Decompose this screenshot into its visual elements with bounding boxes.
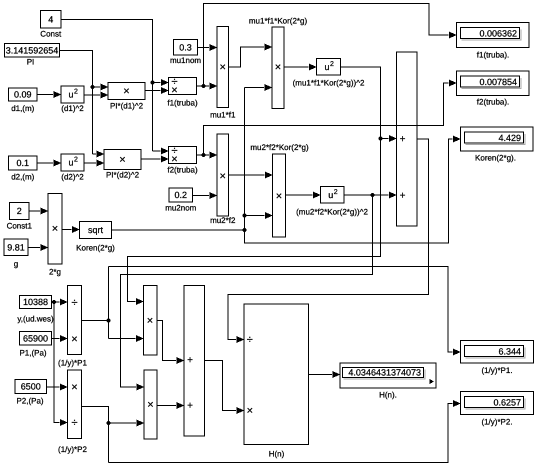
block constant mu1nom (0.3) — [174, 40, 198, 56]
label f2(truba) — [167, 166, 198, 175]
wire f1(truba) -> mu1*f1 and display f1(truba). — [197, 4, 457, 90]
block constant g (9.81) — [4, 239, 28, 256]
label PI*(d2)^2 — [106, 171, 140, 180]
svg-text:0.3: 0.3 — [179, 42, 192, 52]
block constant d1,(m) (0.09) — [9, 88, 38, 101]
svg-text:×: × — [71, 382, 77, 394]
product block f2(truba) divide — [169, 145, 197, 166]
svg-text:PI*(d1)^2: PI*(d1)^2 — [110, 102, 144, 111]
label (mu1*f1*Kor(2*g))^2 — [293, 79, 365, 88]
product block f1(truba) divide — [169, 76, 197, 97]
svg-text:f2(truba).: f2(truba). — [477, 98, 509, 107]
svg-text:3.141592654: 3.141592654 — [6, 45, 59, 55]
label f2(truba). — [477, 98, 509, 107]
wire d2 -> (d2)^2 — [37, 160, 61, 167]
wire f2(truba) -> mu2*f2 and display f2(truba). — [197, 80, 457, 159]
block constant P2,(Pa) (6500) — [15, 380, 47, 394]
label f1(truba) — [167, 99, 198, 108]
wire (d2)^2 -> PI*(d2)^2 — [84, 160, 104, 167]
svg-text:4.429: 4.429 — [498, 133, 521, 143]
label Const1 — [7, 222, 33, 231]
product block PI*(d1)^2 — [108, 83, 145, 100]
svg-text:f1(truba).: f1(truba). — [477, 51, 509, 60]
wire (mu2*f2*Kor(2*g))^2 -> sum upper and mid product 2 — [121, 192, 397, 391]
svg-text:Const: Const — [40, 30, 62, 39]
product block (1/y)*P2 (tall) — [68, 370, 82, 439]
svg-text:+: + — [187, 355, 193, 366]
svg-text:Const1: Const1 — [7, 222, 33, 231]
svg-text:2: 2 — [17, 206, 22, 216]
svg-text:÷: ÷ — [71, 297, 77, 309]
wire mu2*f2*Kor(2*g) -> u^2 — [286, 192, 321, 199]
label Koren(2*g). — [475, 154, 516, 163]
svg-text:mu2*f2*Kor(2*g): mu2*f2*Kor(2*g) — [250, 143, 309, 152]
svg-text:×: × — [275, 61, 281, 73]
math block (d1)^2 u^2 — [61, 86, 84, 103]
svg-text:(mu1*f1*Kor(2*g))^2: (mu1*f1*Kor(2*g))^2 — [293, 79, 365, 88]
label (1/y)*P2 — [58, 445, 87, 454]
wire (1/y)*P2 -> mid product 2, display (1/y)*P2. — [82, 400, 461, 463]
svg-text:f1(truba): f1(truba) — [167, 99, 198, 108]
wire y(10388) -> (1/y)*P1 and (1/y)*P2 — [52, 299, 68, 427]
wire sum upper -> H(n) divide input — [228, 139, 429, 343]
svg-text:+: + — [400, 134, 406, 145]
svg-text:2: 2 — [74, 157, 78, 164]
product block 2*g (tall) — [48, 194, 62, 265]
svg-text:u: u — [68, 158, 73, 168]
svg-text:mu1*f1*Kor(2*g): mu1*f1*Kor(2*g) — [249, 17, 308, 26]
label H(n). — [379, 391, 397, 400]
math block (mu1*f1*Kor(2*g))^2 u^2 — [317, 59, 341, 76]
svg-text:u: u — [68, 90, 73, 100]
display f2(truba). (0.007854) — [457, 71, 530, 96]
wire mid product 2 -> sum lower — [157, 402, 184, 409]
svg-text:÷: ÷ — [247, 334, 253, 346]
svg-text:H(n): H(n) — [269, 450, 285, 459]
svg-text:0.007854: 0.007854 — [479, 77, 517, 87]
wire P1(65900) -> (1/y)*P1 — [52, 335, 68, 342]
svg-text:(d2)^2: (d2)^2 — [61, 173, 84, 182]
svg-text:6.344: 6.344 — [498, 347, 521, 357]
math block (mu2*f2*Kor(2*g))^2 u^2 — [321, 187, 345, 204]
wire (mu1*f1*Kor(2*g))^2 -> sum upper and mid product 1 — [128, 67, 397, 305]
wire mu2nom(0.2) -> mu2*f2 — [193, 192, 218, 199]
label (d2)^2 — [61, 173, 84, 182]
block constant d2,(m) (0.1) — [9, 156, 38, 170]
svg-text:×: × — [147, 399, 153, 411]
sqrt block Koren(2*g) — [80, 222, 112, 239]
wire (1/y)*P1 -> mid product 1, display (1/y)*P1. — [82, 267, 461, 356]
svg-text:9.81: 9.81 — [7, 242, 25, 252]
svg-text:6500: 6500 — [21, 382, 41, 392]
svg-text:P2,(Pa): P2,(Pa) — [16, 397, 43, 406]
svg-text:10388: 10388 — [23, 297, 48, 307]
label PI*(d1)^2 — [110, 102, 144, 111]
svg-text:×: × — [119, 154, 125, 166]
svg-text:u: u — [324, 62, 329, 72]
svg-text:2: 2 — [334, 189, 338, 196]
product block mid product 2 (tall) — [144, 370, 157, 439]
math block (d2)^2 u^2 — [61, 154, 84, 171]
wire H(n) -> display H(n). — [309, 371, 341, 378]
svg-text:÷: ÷ — [71, 417, 77, 429]
svg-text:0.09: 0.09 — [14, 90, 32, 100]
label Koren(2*g) — [76, 244, 115, 253]
svg-text:×: × — [171, 85, 177, 97]
svg-text:0.6257: 0.6257 — [493, 398, 521, 408]
svg-text:sqrt: sqrt — [88, 225, 104, 235]
label d1,(m) — [11, 104, 34, 113]
svg-text:mu1*f1: mu1*f1 — [210, 111, 236, 120]
label mu2*f2*Kor(2*g) — [250, 143, 309, 152]
block constant Const1 (2) — [10, 203, 30, 220]
wire 2*g -> sqrt — [62, 226, 80, 233]
label g — [14, 260, 18, 269]
svg-text:PI*(d2)^2: PI*(d2)^2 — [106, 171, 140, 180]
wire Const1(2) -> 2*g — [29, 208, 48, 215]
wire PI*(d1)^2 -> f1(truba) — [145, 87, 169, 94]
display Koren(2*g). (4.429) — [461, 127, 534, 151]
wire P2(6500) -> (1/y)*P2 — [47, 384, 68, 391]
wire sqrt Koren(2*g) -> mu1*f1*Kor, mu2*f2*Kor, display Koren(2*g). — [112, 84, 461, 243]
svg-text:×: × — [220, 62, 226, 74]
product block mu1*f1 (tall) — [217, 27, 229, 108]
label PI — [27, 58, 35, 67]
svg-text:(mu2*f2*Kor(2*g))^2: (mu2*f2*Kor(2*g))^2 — [296, 208, 368, 217]
svg-text:g: g — [14, 260, 18, 269]
label f1(truba). — [477, 51, 509, 60]
wire (d1)^2 -> PI*(d1)^2 — [84, 92, 108, 99]
svg-text:mu2*f2: mu2*f2 — [210, 216, 236, 225]
display f1(truba). (0.006362) — [457, 23, 530, 48]
label mu2nom — [165, 204, 196, 213]
svg-text:(1/y)*P2: (1/y)*P2 — [58, 445, 87, 454]
product block PI*(d2)^2 — [104, 150, 141, 170]
sum block lower (tall, + +) — [184, 286, 205, 437]
block constant P1,(Pa) (65900) — [20, 332, 52, 346]
label mu1*f1 — [210, 111, 236, 120]
svg-text:65900: 65900 — [23, 333, 48, 343]
svg-text:×: × — [71, 333, 77, 345]
svg-text:H(n).: H(n). — [379, 391, 397, 400]
wire PI*(d2)^2 -> f2(truba) — [141, 156, 169, 163]
wire mu1*f1*Kor(2*g) -> u^2 — [284, 64, 317, 71]
svg-text:2*g: 2*g — [49, 268, 61, 277]
svg-text:mu1nom: mu1nom — [170, 56, 201, 65]
svg-text:P1,(Pa): P1,(Pa) — [19, 349, 46, 358]
product block mid product 1 (tall) — [144, 286, 158, 356]
svg-text:×: × — [171, 154, 177, 166]
label (1/y)*P1. — [481, 366, 512, 375]
display H(n). (4.0346431374073) — [340, 363, 436, 388]
svg-text:0.006362: 0.006362 — [479, 29, 517, 39]
svg-text:d1,(m): d1,(m) — [11, 104, 34, 113]
product block mu1*f1*Kor(2*g) (tall) — [272, 27, 284, 109]
svg-text:(d1)^2: (d1)^2 — [61, 104, 84, 113]
label mu1nom — [170, 56, 201, 65]
svg-text:+: + — [400, 191, 406, 202]
wire PI -> PI*(d1)^2, PI*(d2)^2 — [60, 50, 109, 157]
product block mu2*f2 (tall) — [217, 134, 229, 216]
label mu2*f2 — [210, 216, 236, 225]
svg-text:(1/y)*P1.: (1/y)*P1. — [481, 366, 512, 375]
label 2*g — [49, 268, 61, 277]
svg-text:2: 2 — [74, 89, 78, 96]
svg-text:×: × — [123, 86, 129, 98]
wire mu1*f1 -> mu1*f1*Kor(2*g) — [229, 44, 273, 68]
svg-text:0.1: 0.1 — [16, 158, 29, 168]
product block H(n) (big, divide) — [244, 304, 309, 445]
label mu1*f1*Kor(2*g) — [249, 17, 308, 26]
svg-text:4.0346431374073: 4.0346431374073 — [348, 368, 421, 378]
svg-text:(1/y)*P1: (1/y)*P1 — [58, 359, 87, 368]
svg-text:2: 2 — [330, 61, 334, 68]
sum block upper (tall, + +) — [397, 52, 418, 226]
svg-text:×: × — [147, 315, 153, 327]
svg-text:u: u — [328, 190, 333, 200]
label H(n) — [269, 450, 285, 459]
label P2,(Pa) — [16, 397, 43, 406]
product block mu2*f2*Kor(2*g) (tall) — [273, 154, 286, 237]
product block (1/y)*P1 (tall) — [68, 286, 82, 355]
svg-text:×: × — [247, 405, 253, 417]
wire sum lower -> H(n) multiply input — [205, 361, 245, 415]
label (1/y)*P2. — [481, 418, 512, 427]
svg-text:Koren(2*g): Koren(2*g) — [76, 244, 115, 253]
svg-text:×: × — [52, 223, 58, 235]
label d2,(m) — [11, 173, 34, 182]
svg-text:+: + — [187, 401, 193, 412]
label (d1)^2 — [61, 104, 84, 113]
wire mid product 1 -> sum lower — [157, 321, 184, 365]
block constant mu2nom (0.2) — [169, 188, 193, 202]
svg-text:y,(ud.wes): y,(ud.wes) — [17, 315, 54, 324]
wire mu1nom(0.3) -> mu1*f1 — [198, 44, 218, 51]
wire Const(4) -> f1(truba),f2(truba) — [61, 19, 169, 154]
wire g(9.81) -> 2*g — [28, 244, 48, 251]
display (1/y)*P2. (0.6257) — [461, 392, 534, 415]
svg-text:×: × — [276, 190, 282, 202]
svg-text:(1/y)*P2.: (1/y)*P2. — [481, 418, 512, 427]
svg-text:PI: PI — [27, 58, 35, 67]
svg-text:mu2nom: mu2nom — [165, 204, 196, 213]
svg-text:d2,(m): d2,(m) — [11, 173, 34, 182]
svg-text:4: 4 — [48, 14, 53, 24]
label (mu2*f2*Kor(2*g))^2 — [296, 208, 368, 217]
block constant Const (4) — [41, 11, 62, 29]
svg-text:f2(truba): f2(truba) — [167, 166, 198, 175]
svg-text:Koren(2*g).: Koren(2*g). — [475, 154, 516, 163]
wire mu2*f2 -> mu2*f2*Kor(2*g) — [229, 172, 273, 179]
wire d1 -> (d1)^2 — [37, 91, 61, 98]
label Const — [40, 30, 62, 39]
label P1,(Pa) — [19, 349, 46, 358]
block constant PI (3.141592654) — [5, 44, 60, 58]
display (1/y)*P1. (6.344) — [461, 341, 534, 364]
label (1/y)*P1 — [58, 359, 87, 368]
block constant y,(ud.wes) (10388) — [20, 296, 52, 309]
svg-text:×: × — [220, 170, 226, 182]
svg-text:0.2: 0.2 — [174, 190, 187, 200]
label y,(ud.wes) — [17, 315, 54, 324]
